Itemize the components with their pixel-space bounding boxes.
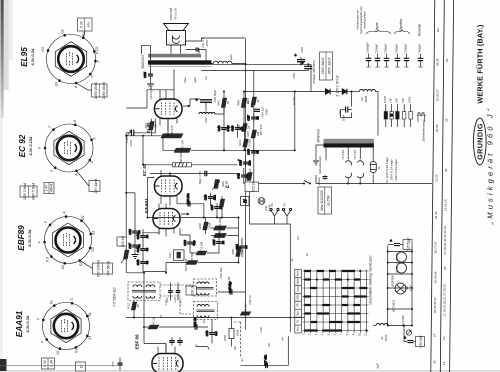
svg-text:5n: 5n	[256, 150, 260, 154]
mains switch S	[304, 181, 310, 184]
svg-text:EC 92: EC 92	[142, 163, 147, 176]
wire	[144, 273, 166, 344]
value label box B+	[320, 52, 333, 80]
svg-text:0.5μ: 0.5μ	[226, 125, 230, 131]
wire	[241, 238, 243, 257]
switch matrix contact numbers	[302, 333, 368, 337]
svg-text:1000pF: 1000pF	[366, 42, 370, 52]
value label box R33	[186, 285, 197, 296]
AM/FM dashed divider	[233, 322, 241, 358]
coil Dr1033	[376, 324, 388, 326]
legend capacitor 600pF	[418, 54, 424, 68]
value label box EAA91-bot1	[42, 358, 55, 369]
svg-text:60.: 60.	[436, 28, 440, 32]
svg-text:9648-013: 9648-013	[141, 55, 145, 69]
schematic right border line	[431, 0, 435, 372]
coil 8V	[360, 90, 376, 92]
svg-text:Aus: Aus	[296, 326, 300, 332]
ground under C95	[147, 84, 154, 88]
wire	[388, 251, 412, 253]
svg-text:C45 5nF: C45 5nF	[248, 168, 252, 179]
capacitor C46	[136, 258, 149, 267]
svg-text:EAA91: EAA91	[144, 198, 149, 213]
svg-text:C44 5μF: C44 5μF	[149, 88, 153, 99]
wire	[83, 31, 85, 38]
capacitor C38	[185, 193, 194, 207]
wire	[148, 178, 239, 218]
resistor R12	[126, 302, 140, 310]
svg-text:R33 1k: R33 1k	[191, 285, 195, 296]
svg-text:42,43,44.: 42,43,44.	[433, 271, 437, 284]
legend capacitor 1000pF	[366, 54, 372, 68]
capacitor C26	[183, 239, 196, 248]
svg-text:150V 0.3A träge: 150V 0.3A träge	[390, 159, 394, 181]
svg-text:R17: R17	[168, 252, 172, 258]
wire	[143, 229, 159, 235]
wire	[294, 64, 311, 70]
svg-text:5W: 5W	[401, 98, 405, 103]
svg-text:Mittel: Mittel	[296, 278, 300, 285]
svg-text:C95: C95	[143, 72, 147, 78]
electrolytic capacitor C44	[251, 105, 260, 112]
svg-text:10nF: 10nF	[342, 114, 346, 121]
wire	[160, 90, 177, 131]
svg-text:5k: 5k	[247, 125, 251, 129]
parts list column 1	[432, 28, 440, 364]
wire	[189, 235, 191, 253]
wire	[76, 83, 91, 90]
wire	[221, 196, 223, 218]
svg-text:R25: R25	[246, 131, 250, 137]
wire	[180, 229, 190, 236]
svg-text:Spannungsangabe des: Spannungsangabe des	[359, 6, 363, 34]
legend capacitor 500pF	[395, 54, 401, 68]
legend resistor 0.5W	[384, 104, 387, 127]
svg-text:blau: blau	[183, 77, 187, 83]
wire	[134, 193, 136, 242]
wire	[243, 92, 245, 124]
resistor R25	[246, 130, 260, 138]
wire	[158, 344, 175, 354]
svg-text:Schutzkontakt: Schutzkontakt	[318, 156, 322, 174]
wire	[373, 325, 376, 327]
resistor R20h	[214, 216, 227, 230]
ground left	[132, 255, 139, 259]
svg-text:R41: R41	[216, 100, 220, 106]
svg-text:NF: NF	[233, 346, 237, 350]
wire	[126, 317, 304, 319]
svg-text:1n: 1n	[137, 230, 141, 234]
resistor R39	[186, 252, 198, 265]
svg-text:Styroflex: Styroflex	[399, 18, 403, 31]
heater top capacitor C35	[388, 239, 412, 246]
value label box EL95-top	[78, 18, 93, 31]
wire	[244, 132, 246, 151]
wire	[245, 39, 247, 330]
diode D1	[326, 89, 331, 95]
wire	[177, 202, 185, 204]
wire	[347, 91, 360, 93]
svg-text:6.3V 0.15A: 6.3V 0.15A	[29, 136, 33, 155]
tube socket diagram EL95	[47, 34, 97, 84]
svg-text:R20 1M: R20 1M	[121, 236, 125, 248]
svg-text:600pF: 600pF	[418, 44, 422, 52]
wire	[165, 263, 167, 273]
capacitor C48	[136, 232, 149, 241]
wire	[166, 262, 238, 264]
value label box Netz	[318, 187, 332, 214]
svg-text:Kondensator mit: Kondensator mit	[356, 10, 360, 30]
wire	[150, 65, 152, 84]
svg-text:C38 10n: C38 10n	[186, 193, 190, 205]
svg-text:R30: R30	[198, 223, 202, 229]
svg-text:R24: R24	[246, 98, 250, 104]
svg-text:40mA: 40mA	[50, 184, 54, 192]
wire	[223, 92, 225, 99]
svg-text:1n: 1n	[244, 245, 248, 249]
svg-text:K1: K1	[296, 236, 300, 240]
wire	[246, 91, 312, 93]
svg-text:C41: C41	[237, 173, 241, 179]
svg-text:C50 5nF: C50 5nF	[419, 334, 423, 347]
capacitor C46	[227, 281, 236, 295]
svg-text:R18 0.1M: R18 0.1M	[227, 276, 231, 289]
svg-text:1n: 1n	[145, 235, 149, 239]
svg-text:9648: 9648	[364, 95, 368, 102]
svg-text:290V 44mA: 290V 44mA	[321, 58, 325, 76]
electrolytic capacitor C42	[196, 98, 213, 112]
svg-text:EBF89: EBF89	[17, 225, 26, 251]
tube EL95	[155, 99, 183, 119]
resistor R35	[231, 247, 245, 257]
svg-text:5k: 5k	[136, 304, 140, 308]
svg-text:1M: 1M	[241, 249, 245, 254]
svg-text:Arbeitspunktes: Arbeitspunktes	[363, 10, 367, 29]
capacitor C97	[210, 203, 223, 212]
svg-text:TA: TA	[283, 203, 287, 207]
wire	[190, 204, 204, 218]
svg-text:+: +	[251, 105, 253, 109]
wire	[211, 228, 239, 236]
svg-text:EBF 89: EBF 89	[135, 334, 140, 349]
svg-text:6.3V: 6.3V	[43, 359, 47, 366]
svg-text:Spr.: Spr.	[296, 310, 300, 315]
svg-text:Keramik: Keramik	[418, 24, 422, 36]
svg-text:500pF: 500pF	[384, 44, 388, 52]
svg-text:a1: a1	[290, 258, 294, 262]
capacitor C96	[341, 107, 352, 113]
svg-text:74V 56mA: 74V 56mA	[107, 261, 111, 276]
resistor R47	[148, 317, 159, 329]
svg-text:(EAB...): (EAB...)	[395, 263, 399, 273]
tube EC 92	[155, 176, 183, 196]
wire	[246, 183, 305, 185]
svg-text:6.3V: 6.3V	[80, 20, 84, 27]
svg-text:A: A	[74, 86, 78, 89]
svg-text:35.: 35.	[432, 360, 436, 364]
wire	[212, 63, 295, 65]
capacitor C41	[237, 172, 250, 181]
parts column line	[440, 0, 444, 372]
svg-text:2W: 2W	[394, 98, 398, 104]
switch matrix contact blobs	[305, 271, 365, 331]
wire	[211, 320, 213, 344]
capacitor C21	[235, 243, 248, 252]
svg-text:G3: G3	[55, 82, 59, 86]
svg-text:Papier: Papier	[375, 21, 379, 31]
wire	[150, 173, 238, 175]
wire	[316, 145, 324, 160]
capacitor C97	[323, 175, 328, 180]
capacitor C52	[177, 337, 183, 346]
svg-text:220pF: 220pF	[317, 177, 321, 186]
svg-text:R38 470: R38 470	[170, 125, 174, 137]
svg-text:C17 47n: C17 47n	[264, 354, 268, 366]
value label box EL95-bot	[92, 82, 108, 100]
switch matrix junction dots	[303, 270, 367, 332]
wire	[294, 92, 296, 151]
capacitor C41	[193, 48, 202, 52]
svg-text:7V 0.3A: 7V 0.3A	[341, 150, 345, 160]
svg-text:R36 10W: R36 10W	[179, 152, 183, 164]
svg-text:A2: A2	[267, 343, 271, 348]
svg-text:R47 1k: R47 1k	[152, 317, 156, 327]
svg-text:K G2: K G2	[95, 46, 99, 53]
value label box EBF89-top	[20, 183, 37, 202]
pilot lamp La2	[357, 158, 363, 179]
svg-text:C33: C33	[238, 160, 242, 166]
svg-text:470: 470	[111, 361, 115, 366]
svg-text:36,34,40,41.: 36,34,40,41.	[433, 296, 437, 313]
resistor R23	[238, 139, 252, 147]
svg-text:10n: 10n	[247, 160, 251, 165]
wire	[326, 147, 373, 161]
svg-text:K1: K1	[75, 349, 79, 353]
svg-text:GRUNDIG: GRUNDIG	[475, 123, 484, 160]
svg-text:R19 2.2M: R19 2.2M	[184, 258, 188, 271]
resistor R36 open	[173, 163, 192, 167]
svg-text:26.: 26.	[443, 266, 447, 271]
wire	[138, 119, 155, 133]
svg-text:250V: 250V	[205, 39, 209, 48]
IF transformer block 2	[194, 279, 217, 296]
svg-text:5μF: 5μF	[376, 363, 380, 368]
resistor R42	[144, 122, 158, 131]
svg-text:1n: 1n	[221, 241, 225, 245]
svg-text:C22 1n: C22 1n	[248, 295, 252, 305]
wire	[223, 108, 225, 126]
tube EAA91	[153, 209, 180, 229]
potentiometer R29	[212, 180, 220, 191]
wire	[223, 133, 225, 151]
pilot lamp La1	[345, 158, 351, 179]
TA terminal 2	[282, 208, 291, 224]
svg-text:R48: R48	[223, 335, 227, 341]
svg-text:E 125: E 125	[292, 97, 296, 105]
wire	[376, 92, 379, 136]
legend resistor 5W	[403, 104, 406, 127]
wire	[126, 193, 143, 273]
wire	[190, 247, 219, 253]
svg-text:0.1: 0.1	[214, 331, 218, 336]
wire	[316, 175, 432, 184]
svg-text:R43: R43	[204, 117, 208, 123]
capacitor C37	[247, 114, 260, 123]
value label box EBF89-bot	[93, 260, 113, 277]
svg-text:2k: 2k	[226, 101, 230, 106]
svg-text:EC 92: EC 92	[18, 134, 27, 157]
svg-text:WERKE FÜRTH (BAY.): WERKE FÜRTH (BAY.)	[475, 24, 484, 104]
svg-text:S1: S1	[88, 312, 92, 316]
svg-text:2k: 2k	[256, 99, 260, 104]
headphone H box	[241, 197, 250, 206]
wire	[190, 99, 224, 114]
svg-text:R27 470: R27 470	[259, 124, 263, 135]
svg-text:E 125 C 50 HZ: E 125 C 50 HZ	[336, 74, 340, 96]
svg-text:13,14,15.: 13,14,15.	[444, 199, 448, 212]
potentiometer arrow	[121, 255, 128, 263]
svg-text:24V 40mA: 24V 40mA	[94, 179, 98, 195]
wire	[341, 110, 352, 118]
wire	[388, 325, 412, 327]
capacitor C49	[205, 329, 218, 338]
resistor R40	[236, 98, 250, 108]
wire	[186, 50, 207, 65]
svg-text:A: A	[75, 174, 79, 177]
wire	[311, 64, 326, 91]
svg-text:17,18,19,20,21,37,38,22.: 17,18,19,20,21,37,38,22.	[443, 283, 447, 317]
tube socket diagram EC 92	[44, 124, 93, 173]
resistor R32	[219, 199, 225, 207]
svg-text:27,28,29,30,31,32,33.: 27,28,29,30,31,32,33.	[443, 225, 447, 255]
svg-text:36.: 36.	[444, 168, 448, 172]
capacitor C28	[128, 228, 141, 237]
resistor R22	[247, 173, 253, 181]
legend capacitor 100pF	[404, 54, 410, 68]
svg-text:12: 12	[305, 253, 309, 257]
capacitor C94 grid	[128, 130, 138, 137]
output transformer Tr2	[148, 54, 212, 67]
svg-text:F II 5009-320: F II 5009-320	[113, 287, 117, 306]
svg-text:(ECH81): (ECH81)	[392, 300, 396, 312]
value label box C35	[403, 236, 412, 251]
svg-text:+: +	[295, 54, 297, 58]
svg-text:C35 50μF: C35 50μF	[407, 236, 411, 251]
svg-text:D2: D2	[56, 350, 60, 354]
resistor R30	[198, 222, 212, 230]
svg-text:R40: R40	[236, 100, 240, 106]
svg-text:A4: A4	[281, 337, 285, 342]
svg-text:G3: G3	[41, 47, 45, 51]
EAA91 anode arrow	[181, 213, 189, 215]
svg-text:0.3A: 0.3A	[50, 360, 54, 367]
svg-text:54,53.: 54,53.	[435, 124, 439, 133]
legend wirewound symbol	[417, 113, 426, 116]
svg-text:46,48.: 46,48.	[434, 211, 438, 220]
electrolytic capacitor C98	[295, 54, 306, 65]
loudspeaker	[164, 24, 189, 46]
svg-text:C40: C40	[230, 125, 234, 131]
svg-text:7V 0.3A: 7V 0.3A	[353, 150, 357, 160]
scan edge strip left	[1, 0, 4, 118]
wire	[388, 273, 412, 275]
heater circle EABC80	[397, 263, 407, 273]
wire	[241, 364, 263, 366]
capacitor C5	[118, 360, 123, 369]
diode D2	[342, 89, 347, 95]
svg-text:Netz 110/220V: Netz 110/220V	[320, 189, 324, 211]
svg-text:5n: 5n	[137, 244, 141, 248]
svg-text:G1: G1	[61, 265, 65, 269]
wire	[388, 287, 412, 289]
wire	[184, 326, 208, 328]
svg-text:UKW: UKW	[296, 294, 300, 301]
legend capacitor 250pF	[375, 54, 381, 68]
svg-text:K2: K2	[49, 300, 53, 304]
wire	[218, 231, 220, 239]
wire	[171, 283, 179, 301]
svg-text:Si: Si	[377, 166, 381, 169]
mains transformer Tr1	[324, 139, 374, 148]
svg-text:A: A	[63, 212, 67, 215]
svg-text:EAA91: EAA91	[15, 310, 24, 337]
svg-text:A1: A1	[240, 358, 244, 363]
fuse Si	[370, 160, 376, 175]
svg-text:65,77,47.: 65,77,47.	[434, 241, 438, 254]
capacitor C47	[169, 337, 175, 346]
svg-text:Ta.: Ta.	[296, 319, 300, 323]
resistor R20	[123, 250, 129, 259]
svg-text:TA: TA	[296, 303, 300, 307]
svg-text:R42: R42	[144, 123, 148, 129]
svg-text:C98: C98	[292, 73, 296, 79]
value label box R20	[117, 236, 127, 248]
dial lamp symbol	[395, 283, 406, 294]
TA terminal 1	[270, 208, 279, 224]
wire	[143, 229, 166, 272]
heater circle EL95	[397, 252, 407, 262]
svg-text:100pF: 100pF	[404, 44, 408, 52]
wire	[161, 170, 177, 206]
EL95 anode arrow	[183, 105, 190, 107]
headphone jack H	[258, 198, 265, 205]
wire	[133, 301, 135, 318]
wire	[289, 224, 291, 332]
capacitor C25	[212, 238, 225, 247]
svg-text:1.4V: 1.4V	[45, 184, 49, 191]
wire	[151, 119, 153, 136]
resistor R44	[237, 124, 251, 132]
Grundig logo oval	[474, 118, 487, 165]
svg-text:C13: C13	[164, 300, 168, 306]
wire	[192, 164, 238, 166]
wire	[238, 218, 240, 239]
svg-text:C49: C49	[205, 330, 209, 336]
value label box R22	[245, 181, 259, 192]
svg-text:500pF: 500pF	[395, 44, 399, 52]
coil sec	[214, 61, 232, 63]
legend brace Styroflex	[394, 30, 410, 34]
wire	[250, 192, 291, 225]
svg-text:(EBF89): (EBF89)	[391, 275, 395, 287]
svg-text:2x50μF 350/385V: 2x50μF 350/385V	[312, 59, 316, 85]
wire	[216, 204, 218, 218]
svg-text:5n: 5n	[239, 127, 243, 131]
svg-text:A: A	[90, 161, 94, 164]
svg-text:0.5W: 0.5W	[383, 96, 387, 103]
svg-text:15.: 15.	[442, 361, 446, 365]
capacitor C95	[143, 71, 153, 80]
